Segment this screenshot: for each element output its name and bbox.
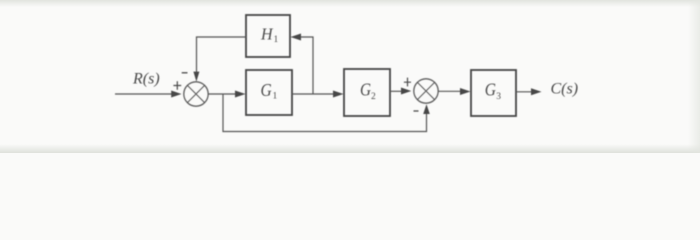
arrowhead output C(s) bbox=[531, 88, 542, 95]
block G3 bbox=[471, 70, 516, 116]
summing junction S2 bbox=[414, 79, 438, 103]
plus sign at S2 input bbox=[404, 78, 411, 87]
arrowhead into S1 bbox=[171, 91, 181, 98]
plus sign at S1 input bbox=[173, 81, 181, 90]
block H1 bbox=[246, 15, 290, 57]
svg-text:G: G bbox=[485, 79, 496, 99]
arrowhead up into S2 bottom bbox=[423, 104, 430, 114]
minus sign at S1 top feedback input bbox=[182, 72, 188, 74]
arrowhead into G1 bbox=[235, 91, 246, 98]
wire G1 to G2 bbox=[292, 93, 336, 95]
block G1 bbox=[246, 70, 292, 115]
svg-text:3: 3 bbox=[496, 92, 501, 102]
arrowhead into G3 bbox=[460, 88, 471, 95]
svg-text:G: G bbox=[360, 80, 371, 100]
wire S2 to G3 bbox=[438, 90, 462, 92]
arrowhead down into S1 bbox=[193, 72, 199, 82]
arrowhead into S2 bbox=[401, 88, 411, 95]
wire S1 to G1 bbox=[208, 93, 238, 95]
wire H1 output left then down to S1 top bbox=[197, 37, 247, 72]
svg-text:1: 1 bbox=[273, 92, 278, 102]
block G2 bbox=[344, 69, 390, 116]
wire G3 to output bbox=[516, 91, 533, 93]
svg-text:C(s): C(s) bbox=[551, 81, 579, 98]
arrowhead into H1 right side bbox=[291, 34, 302, 41]
summing junction S1 bbox=[184, 82, 208, 106]
svg-text:R(s): R(s) bbox=[132, 71, 160, 88]
svg-text:2: 2 bbox=[371, 92, 376, 102]
wire input R(s) to summing junction S1 bbox=[115, 93, 173, 95]
svg-text:G: G bbox=[261, 80, 272, 100]
minus sign at S2 bottom input bbox=[414, 110, 419, 112]
arrowhead into G2 bbox=[333, 91, 344, 98]
wire bottom feedforward: takeoff after S1 down, right, up into S2 bbox=[223, 94, 427, 132]
svg-text:1: 1 bbox=[274, 35, 279, 45]
wire G2 to S2 bbox=[390, 90, 402, 92]
svg-text:H: H bbox=[260, 24, 274, 43]
wire takeoff node after G1 up to H1 input bbox=[299, 37, 313, 94]
